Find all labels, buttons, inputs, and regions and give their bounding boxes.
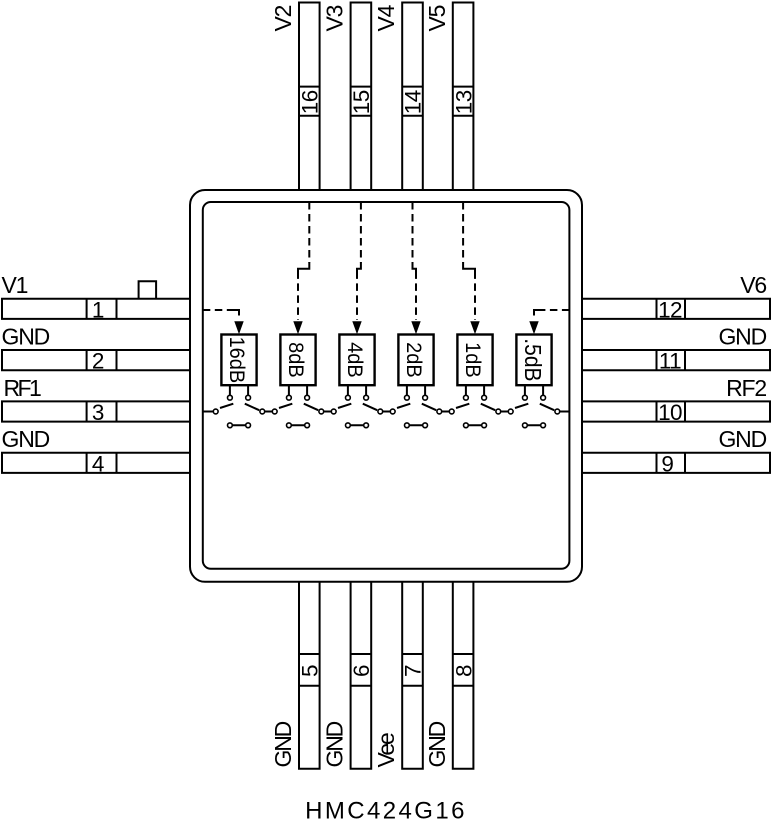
pin 13 (V5) top strip xyxy=(453,3,474,191)
wire node link xyxy=(439,411,451,413)
pin 9 (GND) right strip xyxy=(582,453,770,473)
pin number 16 xyxy=(298,90,323,114)
net label GND xyxy=(718,426,766,452)
svg-text:1dB: 1dB xyxy=(461,342,485,378)
switch arm left of 1dB xyxy=(456,404,469,408)
wire block 8dB terminal stubs xyxy=(289,385,307,395)
svg-text:RF2: RF2 xyxy=(726,375,766,401)
net label GND xyxy=(424,721,450,767)
control wire pin12 to .5dB (dashed) xyxy=(534,310,569,320)
arrowhead into 4dB xyxy=(352,321,361,334)
label .5dB xyxy=(520,338,546,381)
pin 10 (RF2) right strip xyxy=(582,401,770,421)
control wire pin 13 to 1dB (dashed) xyxy=(463,202,475,320)
pin number 12 xyxy=(658,297,682,322)
net label V2 xyxy=(270,5,296,31)
net label GND xyxy=(718,324,766,350)
pin number 4 xyxy=(92,451,104,476)
attenuator block 16dB xyxy=(221,335,256,386)
svg-text:.5dB: .5dB xyxy=(520,338,546,381)
svg-text:11: 11 xyxy=(659,349,681,374)
pin number 3 xyxy=(92,400,104,425)
svg-text:5: 5 xyxy=(298,665,323,677)
svg-text:RF1: RF1 xyxy=(4,375,41,401)
svg-text:14: 14 xyxy=(401,90,426,114)
svg-text:9: 9 xyxy=(661,451,673,476)
pin 1 (V1) left strip xyxy=(2,299,190,319)
wire block 1dB terminal stubs xyxy=(466,385,484,395)
pin 8 (GND) bottom strip xyxy=(453,582,474,769)
attenuator block 1dB xyxy=(457,335,492,386)
net label V1 xyxy=(2,272,28,298)
wire RF1 entry xyxy=(203,411,216,413)
svg-text:V4: V4 xyxy=(373,4,399,31)
attenuator block .5dB xyxy=(516,335,551,386)
arrowhead into 8dB xyxy=(293,321,302,334)
control wire pin 15 to 4dB (dashed) xyxy=(357,202,361,320)
svg-text:V2: V2 xyxy=(270,5,296,31)
svg-text:6: 6 xyxy=(349,665,374,677)
net label RF2 xyxy=(726,375,766,401)
wire block 16dB terminal stubs xyxy=(230,385,248,395)
pin number 5 xyxy=(298,665,323,677)
net label GND xyxy=(2,426,50,452)
wire node link xyxy=(498,411,510,413)
svg-text:V5: V5 xyxy=(424,5,450,31)
wire RF2 exit xyxy=(557,411,569,413)
node circles cell 8dB xyxy=(272,395,323,427)
pin number 13 xyxy=(451,90,476,114)
svg-text:16dB: 16dB xyxy=(225,337,249,384)
svg-text:10: 10 xyxy=(658,400,682,425)
node circles cell 16dB xyxy=(213,395,264,427)
node circles cell 2dB xyxy=(390,395,441,427)
pin 4 (GND) left strip xyxy=(2,453,190,473)
switch arm left of 16dB xyxy=(220,404,233,408)
svg-text:GND: GND xyxy=(322,721,348,767)
pin number 8 xyxy=(451,665,476,677)
net label GND xyxy=(322,721,348,767)
net label GND xyxy=(2,324,50,350)
wire block 4dB terminal stubs xyxy=(348,385,366,395)
pin 11 (GND) right strip xyxy=(582,350,770,370)
svg-text:V3: V3 xyxy=(322,5,348,31)
pin number 11 xyxy=(659,349,681,374)
svg-text:GND: GND xyxy=(718,324,766,350)
arrowhead into 16dB xyxy=(234,321,243,334)
svg-text:V6: V6 xyxy=(740,272,766,298)
svg-text:Vee: Vee xyxy=(373,733,399,767)
pin number 14 xyxy=(401,90,426,114)
svg-text:4: 4 xyxy=(92,451,104,476)
bypass link under 1dB xyxy=(466,424,484,426)
label 1dB xyxy=(461,342,485,378)
IC body inner outline xyxy=(203,202,570,569)
node circles cell 1dB xyxy=(449,395,500,427)
svg-text:16: 16 xyxy=(298,90,323,114)
pin 2 (GND) left strip xyxy=(2,350,190,370)
svg-text:GND: GND xyxy=(424,721,450,767)
net label V5 xyxy=(424,5,450,31)
bypass link under .5dB xyxy=(525,424,543,426)
pin 12 (V6) right strip xyxy=(582,299,770,319)
switch arm right of 1dB xyxy=(481,404,495,411)
switch arm right of 16dB xyxy=(245,404,259,411)
pin 1 index notch xyxy=(139,281,157,298)
attenuator block 2dB xyxy=(398,335,433,386)
pin 3 (RF1) left strip xyxy=(2,401,190,421)
pin 16 (V2) top strip xyxy=(299,3,320,191)
switch arm right of .5dB xyxy=(540,404,554,411)
switch arm right of 2dB xyxy=(422,404,436,411)
switch arm right of 4dB xyxy=(363,404,377,411)
svg-text:3: 3 xyxy=(92,400,104,425)
label 8dB xyxy=(284,342,308,378)
svg-text:1: 1 xyxy=(92,297,104,322)
svg-text:GND: GND xyxy=(270,721,296,767)
svg-text:12: 12 xyxy=(658,297,682,322)
label 2dB xyxy=(402,342,426,378)
svg-text:7: 7 xyxy=(401,665,426,677)
switch arm left of 8dB xyxy=(279,404,292,408)
attenuator block 8dB xyxy=(280,335,315,386)
svg-text:2: 2 xyxy=(92,349,104,374)
pin number 15 xyxy=(349,90,374,114)
bypass link under 8dB xyxy=(289,424,307,426)
pin number 9 xyxy=(661,451,673,476)
arrowhead into 2dB xyxy=(411,321,420,334)
arrowhead into .5dB xyxy=(529,321,538,334)
switch arm right of 8dB xyxy=(304,404,318,411)
svg-text:15: 15 xyxy=(349,90,374,114)
pin number 6 xyxy=(349,665,374,677)
net label V6 xyxy=(740,272,766,298)
switch arm left of 2dB xyxy=(397,404,410,408)
switch arm left of 4dB xyxy=(338,404,351,408)
svg-text:GND: GND xyxy=(2,324,50,350)
pin number 10 xyxy=(658,400,682,425)
pin number 2 xyxy=(92,349,104,374)
wire block 2dB terminal stubs xyxy=(407,385,425,395)
pin 15 (V3) top strip xyxy=(351,3,372,191)
svg-text:8dB: 8dB xyxy=(284,342,308,378)
svg-text:HMC424G16: HMC424G16 xyxy=(305,798,467,825)
pin number 1 xyxy=(92,297,104,322)
control wire pin 16 to 8dB (dashed) xyxy=(298,202,309,320)
switch arm left of .5dB xyxy=(515,404,528,408)
bypass link under 16dB xyxy=(230,424,248,426)
wire node link xyxy=(321,411,333,413)
bypass link under 2dB xyxy=(407,424,425,426)
control wire pin1 to 16dB (dashed) xyxy=(203,310,239,320)
pin 6 (GND) bottom strip xyxy=(351,582,372,769)
net label V4 xyxy=(373,4,399,31)
pin number 7 xyxy=(401,665,426,677)
bypass link under 4dB xyxy=(348,424,366,426)
label 16dB xyxy=(225,337,249,384)
svg-text:V1: V1 xyxy=(2,272,28,298)
svg-text:4dB: 4dB xyxy=(343,342,367,378)
control wire pin 14 to 2dB (dashed) xyxy=(413,202,417,320)
pin 7 (Vee) bottom strip xyxy=(402,582,423,769)
net label GND xyxy=(270,721,296,767)
wire node link xyxy=(262,411,274,413)
node circles cell 4dB xyxy=(331,395,382,427)
node circles cell .5dB xyxy=(508,395,559,427)
IC body outer outline U1 xyxy=(190,190,582,582)
pin 14 (V4) top strip xyxy=(402,3,423,191)
svg-text:GND: GND xyxy=(718,426,766,452)
svg-text:GND: GND xyxy=(2,426,50,452)
pin 5 (GND) bottom strip xyxy=(299,582,320,769)
net label Vee xyxy=(373,733,399,767)
attenuator block 4dB xyxy=(339,335,374,386)
svg-text:2dB: 2dB xyxy=(402,342,426,378)
svg-text:8: 8 xyxy=(451,665,476,677)
net label V3 xyxy=(322,5,348,31)
label 4dB xyxy=(343,342,367,378)
svg-text:13: 13 xyxy=(451,90,476,114)
arrowhead into 1dB xyxy=(470,321,479,334)
wire node link xyxy=(380,411,392,413)
wire block .5dB terminal stubs xyxy=(525,385,543,395)
net label RF1 xyxy=(4,375,41,401)
